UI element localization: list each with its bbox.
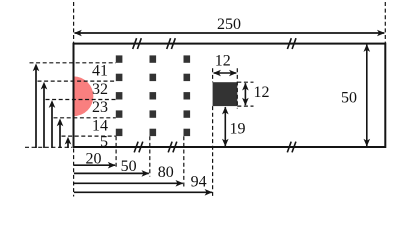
- leader line 5: [62, 135, 116, 137]
- black square left extension (top): [212, 68, 214, 82]
- column 2 extension line: [149, 136, 151, 176]
- dimension 250: [75, 32, 385, 34]
- column 1 extension line: [115, 136, 117, 167]
- dashed lines right of square: [237, 81, 253, 83]
- bottom-left extension of plate bottom edge: [25, 146, 72, 148]
- break mark top edge 1: [133, 38, 137, 49]
- hole square row 5 col 3: [184, 129, 191, 136]
- svg-text:250: 250: [217, 16, 241, 33]
- dimension 19: [224, 107, 226, 146]
- top-right extension line: [384, 2, 386, 44]
- dimension 80: [74, 182, 183, 184]
- left edge lower extension line: [73, 149, 75, 197]
- svg-text:5: 5: [100, 134, 108, 151]
- arrow 41: [35, 66, 37, 148]
- break mark top edge 3: [287, 38, 291, 49]
- dimension 20: [74, 164, 115, 166]
- svg-text:14: 14: [92, 118, 108, 135]
- svg-text:20: 20: [86, 151, 102, 168]
- dimension 50: [74, 172, 149, 174]
- column 3 extension line: [183, 136, 185, 187]
- red semicircular notch on left edge: [74, 76, 94, 116]
- svg-text:19: 19: [230, 120, 246, 137]
- hole square row 3 col 2: [150, 92, 157, 99]
- hole square row 5 col 2: [150, 129, 157, 136]
- leader line 41: [30, 62, 116, 64]
- leader line 32: [38, 80, 116, 82]
- hole square row 2 col 1: [116, 74, 123, 81]
- hole square row 3 col 1: [116, 92, 123, 99]
- svg-text:41: 41: [92, 63, 108, 80]
- black square 12x12: [213, 82, 238, 106]
- dimension 12 top: [214, 72, 237, 74]
- hole square row 5 col 1: [116, 129, 123, 136]
- hole square row 4 col 3: [184, 110, 191, 117]
- hole square row 1 col 2: [150, 55, 157, 62]
- svg-text:23: 23: [92, 99, 108, 116]
- break mark top edge 2: [167, 38, 171, 49]
- svg-text:12: 12: [254, 84, 270, 101]
- break mark bottom edge 3: [287, 142, 291, 153]
- hole square row 1 col 1: [116, 55, 123, 62]
- hole square row 4 col 1: [116, 110, 123, 117]
- top-left extension line: [73, 2, 75, 44]
- svg-text:32: 32: [92, 81, 108, 98]
- black square left extension (down to 94 line): [212, 106, 214, 196]
- hole square row 2 col 2: [150, 74, 157, 81]
- break mark bottom edge 2: [168, 142, 172, 153]
- svg-text:50: 50: [341, 90, 357, 107]
- arrow 14: [59, 121, 61, 148]
- dimension 94: [74, 191, 212, 193]
- svg-text:94: 94: [191, 173, 207, 190]
- arrow 5: [67, 139, 69, 148]
- leader line 14: [54, 117, 116, 119]
- hole square row 4 col 2: [150, 110, 157, 117]
- hole square row 3 col 3: [184, 92, 191, 99]
- break mark bottom edge 1: [134, 142, 138, 153]
- black square right extension (top): [236, 68, 238, 108]
- leader line 23: [46, 99, 116, 101]
- arrow 32: [43, 84, 45, 148]
- svg-text:12: 12: [215, 52, 231, 69]
- dimension 12 right: [244, 83, 246, 105]
- svg-text:50: 50: [121, 158, 137, 175]
- dimension 50 right: [366, 45, 368, 146]
- hole square row 2 col 3: [184, 74, 191, 81]
- plate outline 250x50: [74, 44, 386, 147]
- hole square row 1 col 3: [184, 55, 191, 62]
- svg-text:80: 80: [158, 164, 174, 181]
- arrow 23: [51, 103, 53, 149]
